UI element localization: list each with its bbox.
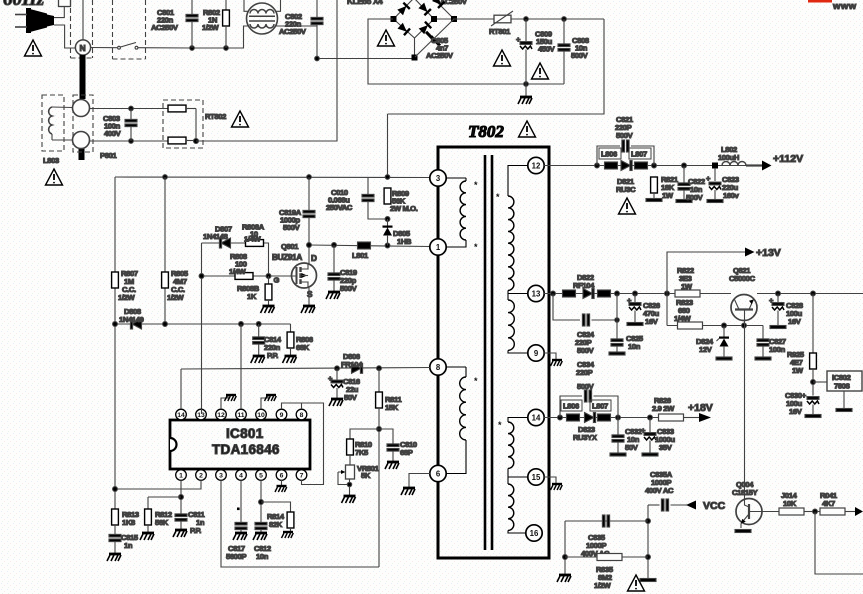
svg-text:L803: L803 — [43, 156, 59, 165]
svg-text:14: 14 — [532, 414, 541, 423]
svg-text:160v: 160v — [723, 191, 740, 200]
svg-text:9: 9 — [534, 349, 539, 358]
svg-text:KLE55 X4: KLE55 X4 — [347, 0, 383, 6]
svg-text:500V: 500V — [340, 284, 358, 293]
svg-text:2: 2 — [199, 473, 203, 480]
svg-text:C5000C: C5000C — [729, 274, 756, 283]
svg-text:12V: 12V — [699, 345, 713, 354]
svg-text:www: www — [832, 1, 857, 12]
svg-text:100uH: 100uH — [718, 153, 739, 162]
svg-text:68K: 68K — [296, 343, 310, 352]
svg-text:C809: C809 — [535, 30, 552, 39]
svg-text:13: 13 — [532, 290, 541, 299]
svg-text:10K: 10K — [783, 499, 797, 508]
svg-text:+13V: +13V — [756, 247, 781, 259]
svg-text:7K5: 7K5 — [355, 448, 369, 457]
svg-text:1N4140: 1N4140 — [119, 315, 144, 324]
svg-text:1W: 1W — [681, 282, 693, 291]
svg-text:L801: L801 — [352, 251, 369, 260]
svg-text:250VAC: 250VAC — [326, 203, 353, 212]
svg-text:12: 12 — [532, 162, 541, 171]
svg-text:10: 10 — [257, 412, 265, 419]
svg-text:50V: 50V — [625, 443, 639, 452]
svg-text:L807: L807 — [592, 402, 608, 411]
svg-text:*: * — [498, 420, 502, 430]
svg-text:500V: 500V — [571, 51, 589, 60]
svg-text:1/2W: 1/2W — [118, 293, 136, 302]
svg-text:IC801: IC801 — [226, 426, 264, 441]
svg-text:1K: 1K — [247, 292, 257, 301]
svg-text:15K: 15K — [385, 403, 399, 412]
svg-text:4: 4 — [239, 473, 243, 480]
svg-text:12: 12 — [217, 412, 225, 419]
svg-text:RT801: RT801 — [489, 27, 511, 36]
svg-text:1/2W: 1/2W — [167, 293, 185, 302]
svg-text:RU3C: RU3C — [616, 185, 636, 194]
svg-text:100n: 100n — [769, 345, 786, 354]
svg-text:1/2W: 1/2W — [202, 23, 220, 32]
svg-text:P.P.: P.P. — [190, 526, 201, 535]
svg-text:Q801: Q801 — [281, 242, 299, 251]
svg-text:C1815Y: C1815Y — [732, 488, 758, 497]
svg-text:1/2W: 1/2W — [594, 581, 612, 590]
svg-text:D: D — [311, 254, 317, 263]
svg-text:1/4W: 1/4W — [244, 235, 262, 244]
svg-text:10n: 10n — [256, 552, 269, 561]
svg-text:*: * — [474, 376, 478, 386]
svg-text:AC250V: AC250V — [426, 51, 454, 60]
svg-text:RU3YX: RU3YX — [573, 433, 597, 442]
svg-text:16: 16 — [530, 529, 539, 538]
svg-text:1HB: 1HB — [397, 237, 412, 246]
svg-text:400V: 400V — [104, 129, 122, 138]
svg-text:5: 5 — [259, 473, 263, 480]
svg-text:P.P.: P.P. — [267, 351, 278, 360]
svg-text:G: G — [274, 276, 280, 285]
svg-text:9: 9 — [280, 412, 284, 419]
svg-text:10n: 10n — [628, 342, 641, 351]
svg-text:4K7: 4K7 — [822, 499, 835, 508]
svg-text:5K: 5K — [361, 471, 371, 480]
svg-text:1: 1 — [179, 473, 183, 480]
svg-text:L807: L807 — [631, 150, 647, 159]
svg-text:L806: L806 — [601, 150, 617, 159]
svg-text:RT802: RT802 — [205, 112, 226, 121]
svg-text:1/4W: 1/4W — [229, 267, 247, 276]
svg-text:S: S — [307, 290, 313, 299]
svg-text:RF104: RF104 — [573, 281, 595, 290]
svg-text:7808: 7808 — [834, 382, 850, 391]
svg-text:35V: 35V — [659, 443, 673, 452]
svg-text:T802: T802 — [468, 122, 504, 141]
svg-text:1n: 1n — [124, 541, 133, 550]
svg-text:1W: 1W — [792, 366, 804, 375]
svg-text:3: 3 — [219, 473, 223, 480]
svg-text:N: N — [80, 43, 86, 53]
svg-text:TDA16846: TDA16846 — [212, 442, 280, 457]
svg-text:8: 8 — [436, 363, 441, 372]
svg-text:500V: 500V — [577, 382, 595, 391]
svg-text:6: 6 — [280, 473, 284, 480]
svg-text:1K8: 1K8 — [122, 518, 135, 527]
svg-text:1: 1 — [436, 243, 441, 252]
svg-text:2W M.O.: 2W M.O. — [390, 204, 418, 213]
svg-text:500V: 500V — [616, 131, 634, 140]
svg-text:1/4W: 1/4W — [674, 314, 692, 323]
svg-text:16V: 16V — [645, 317, 659, 326]
svg-text:11: 11 — [237, 412, 244, 419]
svg-text:500V: 500V — [577, 346, 595, 355]
svg-text:14: 14 — [177, 412, 185, 419]
svg-text:6: 6 — [436, 470, 441, 479]
svg-text:*: * — [474, 180, 478, 190]
svg-text:+112V: +112V — [773, 153, 803, 165]
svg-text:VCC: VCC — [703, 500, 726, 512]
svg-text:500V: 500V — [283, 223, 301, 232]
svg-text:3: 3 — [436, 174, 441, 183]
svg-text:*: * — [474, 242, 478, 252]
svg-text:AC250V: AC250V — [279, 27, 307, 36]
svg-text:400V AC: 400V AC — [645, 486, 674, 495]
svg-text:68P: 68P — [400, 448, 413, 457]
svg-text:500V: 500V — [686, 193, 704, 202]
svg-text:L806: L806 — [563, 402, 579, 411]
svg-text:82K: 82K — [269, 520, 283, 529]
svg-text:AC250V: AC250V — [151, 23, 179, 32]
svg-text:8: 8 — [300, 412, 304, 419]
svg-text:*: * — [496, 192, 500, 202]
svg-text:FR104: FR104 — [341, 360, 363, 369]
svg-text:5600P: 5600P — [226, 552, 246, 561]
svg-text:P801: P801 — [100, 151, 117, 160]
svg-text:220P: 220P — [576, 368, 593, 377]
svg-text:60Hz: 60Hz — [3, 0, 45, 10]
svg-text:+18V: +18V — [688, 402, 713, 414]
svg-text:1N4148: 1N4148 — [203, 232, 228, 241]
svg-text:1W: 1W — [662, 191, 674, 200]
svg-text:BUZ91A: BUZ91A — [272, 253, 302, 262]
svg-text:16V: 16V — [789, 407, 803, 416]
svg-text:50V: 50V — [344, 393, 358, 402]
svg-text:56K: 56K — [155, 518, 169, 527]
svg-text:2.9 2W: 2.9 2W — [652, 404, 675, 413]
svg-text:16V: 16V — [788, 317, 802, 326]
svg-text:15: 15 — [532, 473, 541, 482]
svg-text:7: 7 — [300, 473, 304, 480]
svg-text:450V: 450V — [538, 45, 556, 54]
